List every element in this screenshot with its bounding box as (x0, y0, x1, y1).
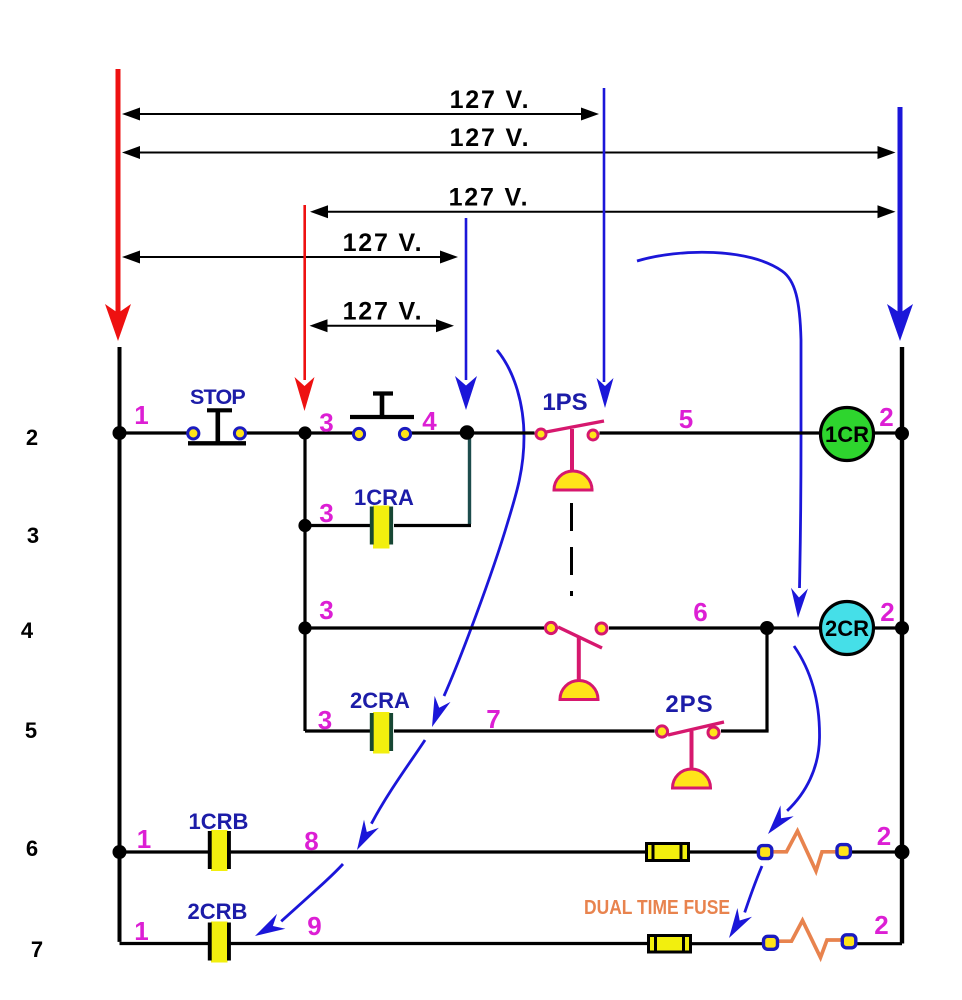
svg-text:5: 5 (679, 404, 693, 434)
svg-text:3: 3 (319, 408, 333, 438)
svg-text:1CRA: 1CRA (354, 485, 414, 510)
pointer arrow red thin (node 3) (295, 205, 315, 411)
svg-text:9: 9 (307, 911, 321, 941)
L1 supply arrow (red) (105, 69, 131, 341)
junction node 2 rung 6 (895, 845, 910, 860)
pointer arrow blue thin (1PS) (597, 88, 614, 408)
svg-text:2: 2 (874, 910, 888, 940)
sub rail x=305 (303, 433, 306, 731)
svg-text:1: 1 (134, 916, 148, 946)
rung 5 wire (305, 729, 769, 732)
rung 7 thermal fuse link (764, 921, 856, 958)
rung4 pressure contact (linked to 1PS) (545, 622, 607, 699)
svg-text:4: 4 (21, 618, 34, 643)
svg-text:4: 4 (422, 406, 437, 436)
svg-text:2: 2 (880, 597, 894, 627)
svg-text:2: 2 (879, 402, 893, 432)
svg-text:1PS: 1PS (542, 389, 587, 416)
junction node 2 rung 4 (895, 621, 909, 635)
rung 6 thermal fuse link (758, 831, 850, 871)
curved arrow to rung7 node 9 (255, 864, 343, 936)
svg-text:3: 3 (27, 523, 39, 548)
dimension arrow 127V #3 (310, 184, 896, 219)
junction node 3 rung 4 (298, 621, 311, 634)
1CRB contact (208, 830, 231, 871)
svg-text:2CR: 2CR (825, 616, 869, 641)
dimension arrow 127V #2 (122, 124, 896, 159)
svg-text:2PS: 2PS (665, 691, 713, 718)
svg-text:7: 7 (486, 704, 500, 734)
svg-text:1CR: 1CR (825, 422, 869, 447)
STOP pushbutton NC (188, 410, 246, 443)
svg-text:DUAL TIME FUSE: DUAL TIME FUSE (584, 897, 730, 919)
1CRA contact (370, 506, 393, 549)
dimension arrow 127V #1 (122, 86, 599, 121)
L2 supply arrow (blue) (887, 107, 913, 341)
wire node6 down to rung 5 (765, 628, 768, 731)
curved arrow to rung7 fuse link (729, 866, 762, 938)
curved arrow to rung6 node 8 (357, 740, 425, 850)
1CR coil (821, 408, 874, 461)
svg-text:3: 3 (319, 595, 333, 625)
svg-text:6: 6 (26, 836, 38, 861)
svg-text:6: 6 (693, 597, 707, 627)
junction node 4 rung 2 (460, 425, 475, 440)
rung 4 wire (305, 626, 902, 629)
2CRB contact (208, 922, 231, 963)
rung 6 fuse (647, 844, 689, 861)
svg-text:1: 1 (134, 400, 148, 430)
rung 7 wire (120, 942, 903, 945)
rung 2 wire (120, 431, 903, 434)
dimension arrow 127V #4 (122, 229, 458, 264)
junction node 3 rung 2 (298, 426, 311, 439)
svg-text:7: 7 (31, 937, 43, 962)
svg-text:1: 1 (137, 824, 151, 854)
junction node 1 rung 2 (113, 426, 127, 440)
curved arrow to rung6 fuse link (768, 646, 820, 834)
svg-text:127 V.: 127 V. (343, 229, 424, 257)
svg-text:127 V.: 127 V. (450, 86, 531, 114)
svg-text:1CRB: 1CRB (189, 809, 249, 834)
svg-text:8: 8 (304, 826, 318, 856)
2CR coil (821, 602, 874, 655)
curved arrow to 2CR coil (637, 252, 808, 618)
svg-text:3: 3 (318, 705, 332, 735)
pointer arrow blue thin (node 4 junction) (455, 218, 477, 410)
junction node 2 rung 2 (895, 427, 909, 441)
2PS pressure switch (656, 722, 724, 788)
junction node 3 rung 3 (298, 519, 311, 532)
svg-text:127 V.: 127 V. (450, 124, 531, 152)
svg-text:2CRA: 2CRA (350, 688, 410, 713)
right rail (900, 347, 904, 944)
left rail (118, 347, 122, 942)
junction node 6 rung 4 (760, 621, 774, 635)
1PS to rung4 switch mechanical dashed link (570, 503, 573, 596)
svg-text:2CRB: 2CRB (188, 899, 248, 924)
svg-text:3: 3 (319, 498, 333, 528)
junction node 1 rung 6 (113, 845, 127, 859)
curved arrow to rung5 node 7 (432, 350, 524, 727)
svg-text:2: 2 (877, 821, 891, 851)
2CRA contact (370, 712, 393, 754)
teal wire from node4 down to rung 3 (468, 433, 471, 524)
rung 6 wire (120, 850, 903, 853)
svg-text:127 V.: 127 V. (343, 298, 424, 326)
1PS pressure switch (536, 421, 604, 490)
svg-text:127 V.: 127 V. (449, 184, 530, 212)
dimension arrow 127V #5 (310, 298, 455, 333)
svg-text:5: 5 (25, 718, 37, 743)
svg-text:STOP: STOP (190, 385, 245, 409)
svg-text:2: 2 (26, 425, 38, 450)
rung 7 fuse (649, 936, 691, 953)
pushbutton NO (3-4) (350, 394, 414, 440)
rung 3 wire (305, 524, 471, 527)
